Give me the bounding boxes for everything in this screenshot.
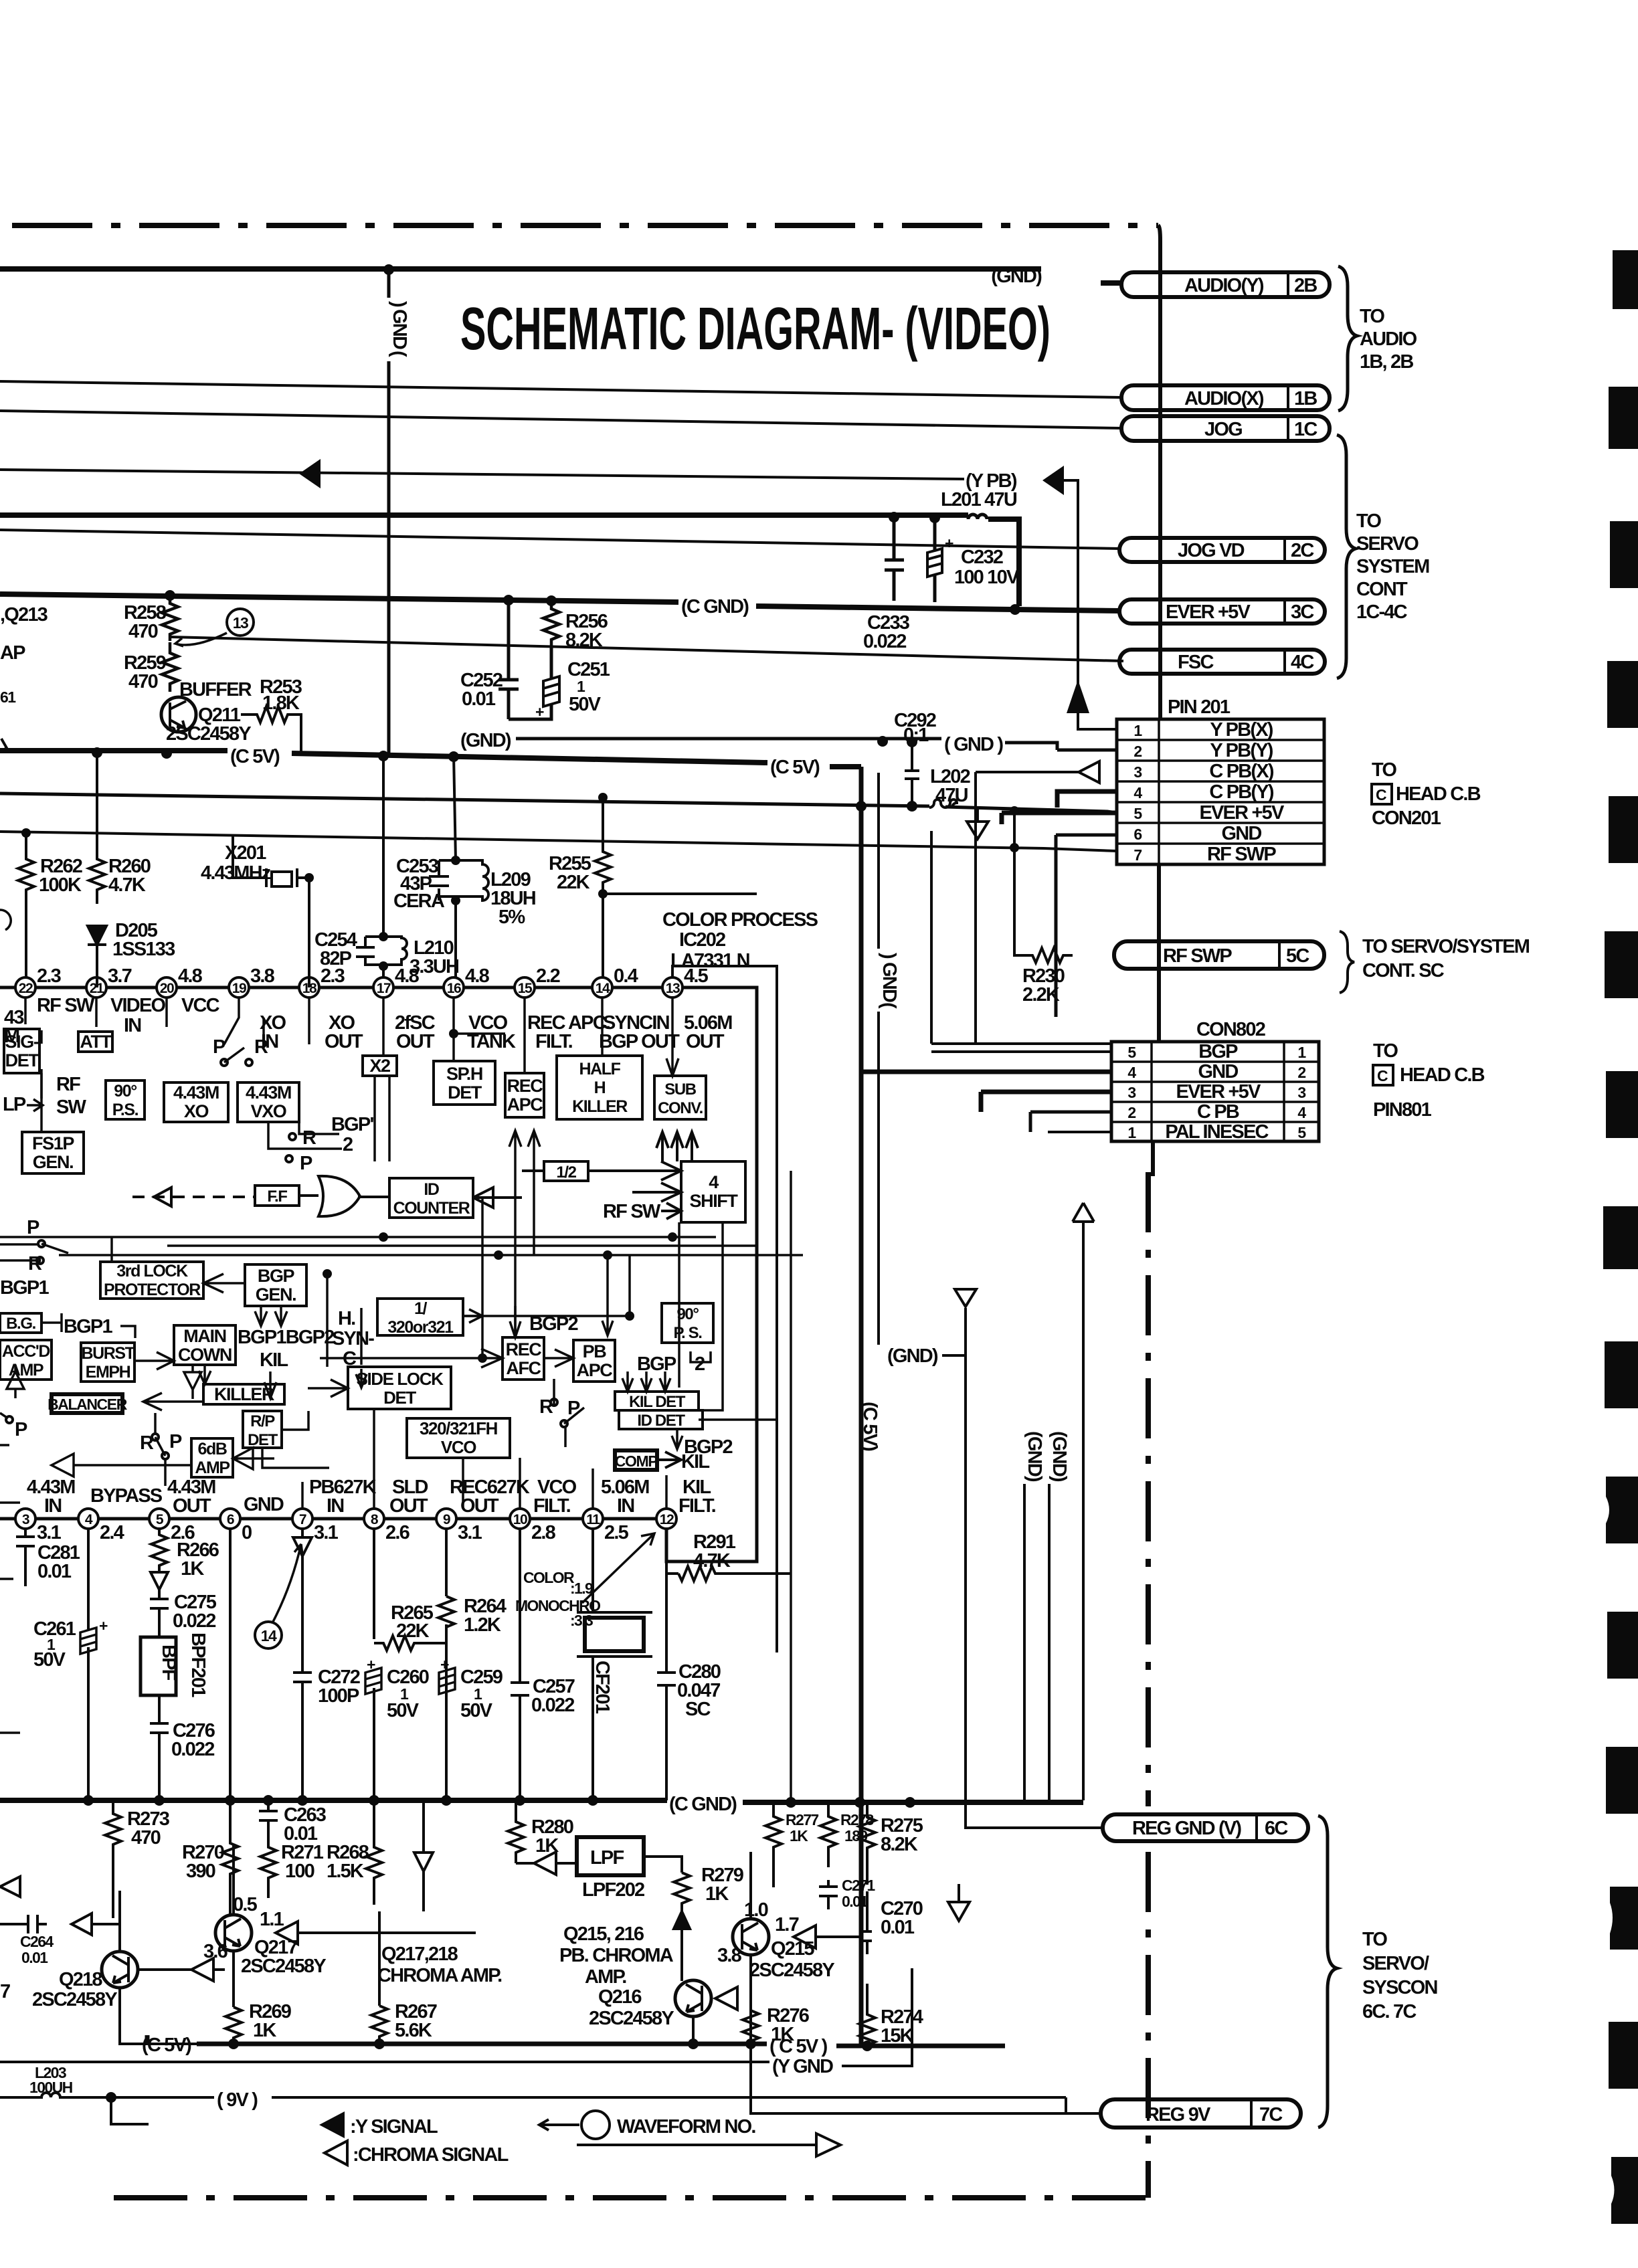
svg-text:VCC: VCC bbox=[181, 995, 220, 1016]
wire Q218 bbox=[120, 1891, 227, 2044]
wire: into 1/2 box bbox=[522, 1169, 544, 1172]
svg-text:17: 17 bbox=[377, 981, 391, 996]
resistor R265 horizontal bbox=[374, 1636, 447, 1650]
registration mark 9 bbox=[1605, 1341, 1638, 1408]
arrow open left at F.F input bbox=[154, 1188, 171, 1206]
svg-text:0.022: 0.022 bbox=[531, 1695, 574, 1716]
svg-text:HALF: HALF bbox=[579, 1060, 620, 1078]
svg-text:( 9V ): ( 9V ) bbox=[217, 2089, 258, 2111]
arrow open up-triangle left edge low bbox=[0, 1877, 20, 1897]
block BURST EMPH bbox=[81, 1343, 134, 1382]
svg-text:5: 5 bbox=[1133, 805, 1142, 822]
arrow filled up on R279 column bbox=[674, 1910, 690, 1981]
svg-text:SC: SC bbox=[685, 1699, 711, 1720]
resistor R279 bbox=[674, 1873, 690, 1910]
node junction on C GND bus for R258 bbox=[165, 590, 175, 601]
svg-text:1.5K: 1.5K bbox=[327, 1861, 364, 1882]
pin 4 of IC202 bbox=[78, 1509, 98, 1529]
svg-text:3: 3 bbox=[22, 1512, 29, 1527]
registration mark 2 bbox=[1609, 387, 1638, 449]
svg-text:16: 16 bbox=[447, 981, 461, 996]
waveform ref 14 circle bbox=[255, 1622, 282, 1648]
svg-text:SYSCON: SYSCON bbox=[1362, 1977, 1437, 1998]
block MAIN COWN bbox=[174, 1325, 236, 1365]
svg-text:1K: 1K bbox=[181, 1558, 204, 1580]
registration mark 3 bbox=[1610, 521, 1638, 588]
wire: OR output into ID COUNTER region bbox=[299, 1196, 389, 1197]
wire: into SIDE LOCK DET arrow bbox=[308, 1380, 348, 1397]
wire Q217 collector up bbox=[232, 1845, 235, 2007]
svg-text:1: 1 bbox=[1133, 722, 1142, 739]
svg-text:22: 22 bbox=[19, 981, 33, 996]
node junctions on C5V lower bbox=[228, 2039, 239, 2049]
resistor R271 bbox=[260, 1840, 276, 1898]
registration mark 5 bbox=[1609, 796, 1638, 863]
svg-text:COUNTER: COUNTER bbox=[393, 1199, 470, 1218]
arrow into ID COUNTER from right bbox=[473, 1188, 522, 1208]
svg-text:SYN-: SYN- bbox=[332, 1328, 374, 1349]
svg-text:0.022: 0.022 bbox=[171, 1739, 214, 1760]
svg-text:14: 14 bbox=[261, 1627, 277, 1644]
op-amp IC202 outline bbox=[0, 987, 757, 1562]
pin 20 of IC202 bbox=[157, 977, 177, 998]
svg-text:7: 7 bbox=[0, 1981, 10, 2002]
svg-text:DET: DET bbox=[5, 1050, 40, 1070]
filter LPF block bbox=[577, 1837, 644, 1875]
svg-text:(C 5V): (C 5V) bbox=[859, 1402, 881, 1451]
svg-text:): ) bbox=[878, 953, 899, 959]
inductor L201 bbox=[968, 514, 987, 519]
wire pin12 column bbox=[666, 1529, 791, 1574]
svg-text:100: 100 bbox=[285, 1861, 314, 1882]
ground: open down triangle on x1443 bbox=[955, 1289, 976, 1307]
svg-text:CERA: CERA bbox=[393, 890, 445, 912]
block SIG DET bbox=[4, 1029, 39, 1073]
svg-text:C251: C251 bbox=[567, 659, 610, 680]
wire: REC APC up arrows bbox=[509, 1131, 540, 1337]
wire: SIDE LOCK DET down to pin8 bbox=[373, 1409, 375, 1509]
svg-text:PAL INESEC: PAL INESEC bbox=[1165, 1121, 1269, 1143]
resistor R253 horizontal bbox=[241, 706, 301, 755]
svg-text:0: 0 bbox=[242, 1522, 252, 1543]
wire: KIL down arrow bbox=[264, 1372, 276, 1398]
svg-text:47U: 47U bbox=[935, 785, 968, 806]
wire: BGP2 arrows to REC AFC bbox=[510, 1306, 521, 1337]
svg-text:2SC2458Y: 2SC2458Y bbox=[241, 1956, 326, 1977]
capacitor C259 electrolytic bbox=[439, 1668, 455, 1694]
diode D205 bbox=[88, 926, 106, 987]
svg-text:KIL DET: KIL DET bbox=[629, 1393, 686, 1411]
svg-text:MAIN: MAIN bbox=[183, 1326, 225, 1346]
wire: from (GND) label right to x1443 bbox=[942, 1354, 966, 1357]
svg-text:H: H bbox=[594, 1078, 606, 1097]
wire: vertical main bus x1734 upper bbox=[1153, 241, 1160, 1176]
svg-text:GEN.: GEN. bbox=[256, 1285, 296, 1305]
svg-text:1C-4C: 1C-4C bbox=[1356, 601, 1408, 623]
svg-text:0.01: 0.01 bbox=[462, 688, 496, 710]
svg-text:IC202: IC202 bbox=[679, 929, 725, 951]
svg-text:390: 390 bbox=[186, 1861, 215, 1882]
svg-text:SERVO/: SERVO/ bbox=[1362, 1953, 1429, 1974]
wire: vertical x1313 with GND label bbox=[877, 773, 880, 1345]
svg-text:Y PB(X): Y PB(X) bbox=[1210, 719, 1273, 741]
wire: AUDIO(X) line bbox=[0, 381, 1121, 397]
svg-text:REG GND (V): REG GND (V) bbox=[1132, 1818, 1241, 1839]
connector bubble FSC 4C bbox=[1119, 650, 1325, 674]
block REC APC bbox=[505, 1073, 544, 1117]
svg-text:5.6K: 5.6K bbox=[395, 2020, 432, 2041]
svg-text:VIDEO: VIDEO bbox=[110, 995, 165, 1016]
resistor R255 bbox=[595, 797, 611, 977]
wire: C 5V thick bus bbox=[0, 751, 861, 767]
wire: Y GND right corner bbox=[842, 1968, 912, 2066]
node: junction dots on L201 line bbox=[889, 512, 899, 523]
node: junctions on C GND bus bbox=[503, 595, 514, 605]
svg-text:Q216: Q216 bbox=[598, 1986, 642, 2008]
svg-text:SERVO: SERVO bbox=[1356, 533, 1419, 555]
arrow open down x633 bbox=[414, 1800, 433, 1911]
svg-text:SIDE LOCK: SIDE LOCK bbox=[357, 1369, 444, 1389]
wire: line y1245 above IC feeding X201 and PIN201 row7 bbox=[0, 832, 1117, 851]
svg-text:470: 470 bbox=[128, 671, 158, 692]
transistor Q215 bbox=[733, 1919, 769, 1955]
svg-text:1.7: 1.7 bbox=[775, 1914, 799, 1935]
connector bubble EVER +5V 3C bbox=[1119, 599, 1325, 624]
svg-text:Q217,218: Q217,218 bbox=[381, 1944, 458, 1965]
resistor R278 bbox=[820, 1800, 836, 1867]
node junctions on y1245 bbox=[21, 828, 31, 838]
pin 17 of IC202 bbox=[373, 977, 393, 998]
svg-text:5: 5 bbox=[1297, 1124, 1306, 1141]
wire: 320/321FH VCO to pin10 bbox=[463, 1458, 520, 1509]
arrow open left into 6dB AMP bbox=[233, 1448, 274, 1469]
arrow: filled up arrow on x1611 wire bbox=[1067, 680, 1089, 713]
svg-text:15: 15 bbox=[518, 981, 533, 996]
svg-text:2.4: 2.4 bbox=[100, 1522, 124, 1543]
svg-text:RF SWP: RF SWP bbox=[1163, 945, 1232, 967]
svg-text:(GND): (GND) bbox=[1024, 1431, 1045, 1482]
svg-text:1.2K: 1.2K bbox=[464, 1614, 501, 1636]
svg-text:KIL: KIL bbox=[260, 1349, 288, 1371]
arrow: filled left arrow at Y PB bbox=[1042, 466, 1064, 495]
connector bubble AUDIO(Y) 2B bbox=[1121, 272, 1330, 297]
svg-text:BPF201: BPF201 bbox=[187, 1632, 209, 1697]
svg-text:C: C bbox=[1377, 1067, 1388, 1084]
wire: vertical GND stub with label bbox=[387, 270, 391, 755]
svg-text:3.1: 3.1 bbox=[37, 1522, 62, 1543]
svg-text:AUDIO(Y): AUDIO(Y) bbox=[1184, 275, 1264, 296]
wire: H.SYN column down bbox=[360, 1308, 363, 1365]
wire: stub into PIN201 row6 bbox=[1056, 835, 1117, 1017]
transistor Q217 bbox=[215, 1915, 252, 1951]
wire: line to REC AFC / PB APC bbox=[320, 1349, 573, 1367]
svg-text:DET: DET bbox=[448, 1082, 482, 1103]
wire: REG 9V feed line bbox=[751, 2022, 1101, 2113]
resistor R274 bbox=[859, 1984, 875, 2049]
capacitor C253 bbox=[429, 860, 449, 901]
svg-text:ACC'D: ACC'D bbox=[2, 1342, 50, 1361]
wire: 3rd LOCK arrow from BGP GEN bbox=[203, 1274, 245, 1293]
svg-text:0.5: 0.5 bbox=[233, 1894, 258, 1915]
svg-text:14: 14 bbox=[596, 981, 610, 996]
svg-text:7: 7 bbox=[299, 1512, 306, 1527]
svg-text:6: 6 bbox=[1133, 826, 1142, 843]
svg-text:AMP.: AMP. bbox=[585, 1966, 626, 1988]
capacitor C292 bbox=[905, 744, 919, 806]
svg-text:GEN.: GEN. bbox=[33, 1152, 73, 1172]
svg-text:R: R bbox=[302, 1127, 316, 1149]
svg-text:L201 47U: L201 47U bbox=[941, 489, 1017, 510]
svg-text:SIG-: SIG- bbox=[5, 1032, 39, 1052]
svg-text:AFC: AFC bbox=[506, 1358, 541, 1378]
wire pin11 column bbox=[591, 1529, 594, 1800]
svg-text:4.7K: 4.7K bbox=[108, 874, 146, 896]
registration mark 11 bbox=[1607, 1612, 1638, 1679]
block B.G. bbox=[0, 1313, 41, 1333]
block 320/321FH VCO bbox=[407, 1418, 510, 1458]
frame: right vertical dash-dot border bbox=[1146, 1172, 1151, 2198]
brace for servo group bbox=[1337, 435, 1356, 678]
pin 19 of IC202 bbox=[229, 977, 249, 998]
wire: long horizontal bus C inside IC bbox=[167, 1244, 757, 1247]
svg-text:3.7: 3.7 bbox=[108, 965, 132, 987]
arrow open left right of Q216 bbox=[715, 1987, 737, 2010]
transistor Q216 bbox=[675, 1980, 711, 2016]
svg-text:2: 2 bbox=[695, 1353, 705, 1375]
svg-text:BYPASS: BYPASS bbox=[90, 1485, 163, 1507]
pin 12 of IC202 bbox=[656, 1509, 676, 1529]
pin 21 of IC202 bbox=[86, 977, 106, 998]
svg-text:ID DET: ID DET bbox=[637, 1412, 685, 1430]
ground open triangle x1433 low bbox=[948, 1884, 970, 1921]
inductor L203 bbox=[0, 2093, 111, 2097]
svg-text:C PB(X): C PB(X) bbox=[1209, 761, 1273, 782]
capacitor C275 bbox=[150, 1596, 169, 1637]
inductor L210 bbox=[365, 756, 407, 977]
inductor L202 bbox=[929, 799, 957, 808]
svg-text:): ) bbox=[388, 301, 409, 307]
svg-text:1K: 1K bbox=[790, 1827, 808, 1845]
wire: C GND bus bbox=[0, 594, 1119, 611]
svg-text:22K: 22K bbox=[396, 1620, 430, 1642]
legend: waveform no bbox=[539, 2119, 579, 2130]
svg-text:C259: C259 bbox=[460, 1667, 503, 1688]
connector bubble JOG VD 2C bbox=[1119, 538, 1325, 562]
wire: long horizontal bus B inside IC bbox=[59, 1254, 803, 1256]
svg-text:TO: TO bbox=[1372, 759, 1396, 781]
gate OR (killer gate) bbox=[318, 1176, 360, 1216]
svg-text:1C: 1C bbox=[1294, 419, 1317, 440]
svg-text:1/2: 1/2 bbox=[556, 1163, 576, 1182]
svg-text:3.8: 3.8 bbox=[250, 965, 275, 987]
arrow: open up triangle on x1619 bbox=[1073, 1203, 1094, 1222]
pin 7 of IC202 bbox=[292, 1509, 312, 1529]
wire: pin13 into IC bbox=[666, 998, 678, 1076]
block KIL DET bbox=[615, 1392, 699, 1410]
svg-text:9: 9 bbox=[443, 1512, 450, 1527]
resistor R266 bbox=[151, 1529, 167, 1568]
wire: pin11 up bbox=[591, 1469, 594, 1509]
wire: vertical x1531 with GND label bbox=[1023, 1484, 1026, 1800]
svg-text:APC: APC bbox=[507, 1095, 543, 1115]
wire pin8 column bbox=[373, 1529, 375, 1800]
registration mark 14 bbox=[1609, 2022, 1638, 2089]
svg-text:C PB: C PB bbox=[1197, 1101, 1239, 1123]
svg-text:LP: LP bbox=[3, 1094, 26, 1115]
arrow diagonal to pin12 bbox=[582, 1533, 654, 1603]
svg-text:SCHEMATIC DIAGRAM- (VIDEO): SCHEMATIC DIAGRAM- (VIDEO) bbox=[460, 296, 1051, 363]
svg-text:470: 470 bbox=[128, 621, 158, 642]
svg-text:FILT.: FILT. bbox=[533, 1495, 571, 1517]
registration mark 6 bbox=[1605, 931, 1638, 998]
svg-text:2.8: 2.8 bbox=[531, 1522, 556, 1543]
connector bubble RF SWP 5C bbox=[1114, 941, 1324, 969]
wire pin9 column bbox=[445, 1529, 448, 1800]
block HALF H KILLER bbox=[557, 1056, 642, 1119]
wire: stub into CON802 row1 bbox=[931, 831, 1111, 1052]
wire: VXO connections bbox=[268, 1122, 342, 1149]
wire: stub into PIN201 row5 bbox=[1002, 813, 1117, 824]
svg-text:82P: 82P bbox=[320, 948, 352, 969]
svg-text:4.43M: 4.43M bbox=[173, 1082, 219, 1103]
wire: 1/320or321 right link bbox=[463, 1309, 482, 1323]
svg-text:AP: AP bbox=[0, 642, 25, 664]
svg-text:7C: 7C bbox=[1259, 2104, 1283, 2125]
wire: SIG DET to FSIP bbox=[40, 1073, 43, 1132]
svg-text:0.01: 0.01 bbox=[881, 1917, 915, 1938]
svg-text:6C: 6C bbox=[1265, 1818, 1288, 1839]
block 4.43M XO bbox=[164, 1082, 228, 1122]
registration mark 10 bbox=[1606, 1477, 1638, 1543]
connector bubble REG 9V 7C bbox=[1101, 2099, 1301, 2128]
wire: Y GND line bbox=[0, 2061, 769, 2063]
arrow open down on pin5 column bbox=[151, 1568, 168, 1596]
resistor R280 bbox=[508, 1800, 524, 1858]
svg-text:P: P bbox=[169, 1431, 182, 1452]
svg-text:22K: 22K bbox=[557, 872, 590, 893]
svg-text:FS1P: FS1P bbox=[32, 1133, 74, 1153]
svg-text:IN: IN bbox=[327, 1495, 343, 1517]
transistor Q211 bbox=[161, 697, 196, 732]
svg-text:4: 4 bbox=[85, 1512, 93, 1527]
wire: R/P DET link bbox=[262, 1411, 329, 1468]
svg-text:100P: 100P bbox=[318, 1685, 359, 1707]
svg-text:FILT.: FILT. bbox=[678, 1495, 716, 1517]
svg-text:(GND): (GND) bbox=[887, 1345, 938, 1367]
svg-text:2: 2 bbox=[1133, 743, 1142, 760]
svg-text:3.3UH: 3.3UH bbox=[409, 956, 458, 977]
svg-text:1/: 1/ bbox=[414, 1299, 428, 1318]
brace small for RF SWP bbox=[1340, 931, 1354, 993]
block 4 SHIFT bbox=[681, 1161, 745, 1222]
svg-text:SHIFT: SHIFT bbox=[690, 1191, 739, 1211]
wire: BGP GEN right column down bbox=[326, 1274, 329, 1367]
block PB APC bbox=[573, 1340, 615, 1382]
svg-text:61: 61 bbox=[0, 688, 16, 706]
wire: stub below L203 bbox=[111, 2097, 149, 2124]
registration mark 13 bbox=[1610, 1887, 1638, 1950]
svg-text:PB. CHROMA: PB. CHROMA bbox=[559, 1945, 674, 1966]
svg-text:+: + bbox=[440, 1656, 449, 1673]
wire: vertical x1619 with open up triangle bbox=[1082, 1223, 1085, 1800]
wire: FSC line from R258/R259 node bbox=[170, 637, 1123, 661]
svg-text:X201: X201 bbox=[225, 842, 266, 864]
waveform ref 13 circle bbox=[227, 609, 254, 636]
wire pin6 to bus bbox=[229, 1529, 232, 1800]
svg-text:13: 13 bbox=[233, 614, 248, 632]
arrow open down below pin7 bbox=[293, 1529, 312, 1556]
svg-text:REG 9V: REG 9V bbox=[1146, 2104, 1211, 2125]
svg-text:3: 3 bbox=[1297, 1084, 1305, 1101]
resistor R268 bbox=[366, 1800, 382, 1905]
svg-text:GND: GND bbox=[1198, 1061, 1238, 1082]
svg-text:2C: 2C bbox=[1291, 540, 1314, 561]
wire pin19 to switch bbox=[224, 998, 264, 1044]
svg-text:BUFFER: BUFFER bbox=[179, 679, 252, 700]
svg-text:1SS133: 1SS133 bbox=[112, 939, 175, 960]
wire: H SYNC down arrow bbox=[356, 1369, 367, 1388]
svg-text:4.8: 4.8 bbox=[178, 965, 203, 987]
svg-text:TO SERVO/SYSTEM: TO SERVO/SYSTEM bbox=[1362, 936, 1530, 957]
block 90deg P.S. right bbox=[662, 1303, 713, 1343]
resistor R270 bbox=[222, 1800, 238, 1914]
capacitor C276 bbox=[150, 1695, 169, 1800]
svg-text:CONT: CONT bbox=[1356, 579, 1408, 600]
svg-text:AUDIO(X): AUDIO(X) bbox=[1184, 388, 1264, 409]
svg-text:JOG: JOG bbox=[1204, 419, 1242, 440]
pin 15 of IC202 bbox=[515, 977, 535, 998]
svg-text:CHROMA AMP.: CHROMA AMP. bbox=[377, 1965, 502, 1986]
frame: top dash-dot chain border bbox=[12, 223, 1158, 228]
arrow curved from 14 to pin7 bbox=[273, 1544, 302, 1622]
svg-text:0.01: 0.01 bbox=[37, 1561, 72, 1582]
svg-text:P.S.: P.S. bbox=[112, 1101, 139, 1119]
svg-text:ATT: ATT bbox=[80, 1032, 112, 1052]
svg-text:Q215: Q215 bbox=[771, 1938, 814, 1960]
svg-text:2SC2458Y: 2SC2458Y bbox=[589, 2008, 674, 2029]
svg-text:(GND): (GND) bbox=[460, 730, 511, 751]
resistor R256 bbox=[543, 601, 559, 648]
node: junction on GND bus bbox=[383, 264, 394, 275]
svg-text:7: 7 bbox=[1133, 846, 1142, 864]
wire: pin22 pin21 pin20 stubs bbox=[25, 998, 167, 1027]
svg-text:HEAD C.B: HEAD C.B bbox=[1400, 1064, 1485, 1086]
svg-text:SP.H: SP.H bbox=[446, 1064, 482, 1084]
svg-text:IN: IN bbox=[617, 1495, 634, 1517]
crystal X201 bbox=[233, 836, 309, 987]
svg-text:0.4: 0.4 bbox=[614, 965, 638, 987]
wire: stub into CON802 row4 bbox=[1030, 1112, 1111, 1132]
svg-text:B.G.: B.G. bbox=[6, 1315, 35, 1333]
svg-text:LA7331 N: LA7331 N bbox=[670, 950, 749, 971]
svg-text:3.1: 3.1 bbox=[458, 1522, 482, 1543]
block 1/320or321 bbox=[377, 1299, 463, 1335]
svg-text:LPF202: LPF202 bbox=[582, 1879, 644, 1901]
svg-text:WAVEFORM NO.: WAVEFORM NO. bbox=[617, 2116, 755, 2138]
resistor R264 bbox=[438, 1596, 454, 1627]
svg-text:KILLER: KILLER bbox=[572, 1097, 628, 1116]
wire: column down into PB APC top bbox=[602, 1255, 613, 1335]
svg-text:3rd LOCK: 3rd LOCK bbox=[116, 1262, 188, 1281]
legend: Y signal filled arrow bbox=[319, 2111, 345, 2138]
svg-text:Q215, 216: Q215, 216 bbox=[563, 1923, 644, 1945]
svg-text:3: 3 bbox=[1127, 1084, 1135, 1101]
svg-text:C PB(Y): C PB(Y) bbox=[1209, 781, 1273, 803]
arrow open left right of Q217 bbox=[276, 1921, 476, 1944]
wire: pin15 to REC APC bbox=[523, 998, 526, 1073]
wire: KILLER to BALANCER arrow bbox=[143, 1393, 203, 1410]
svg-text:CON201: CON201 bbox=[1372, 808, 1441, 829]
